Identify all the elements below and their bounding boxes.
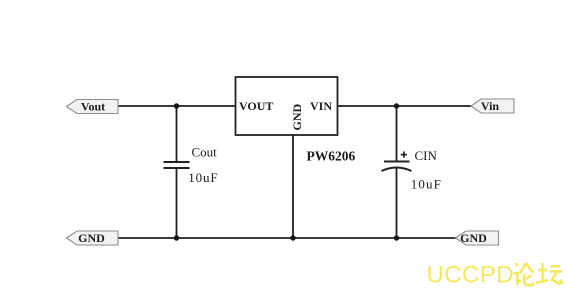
svg-text:Vout: Vout bbox=[81, 100, 105, 114]
svg-text:UCCPD: UCCPD bbox=[427, 262, 514, 289]
svg-text:Cout: Cout bbox=[192, 145, 218, 160]
svg-text:VIN: VIN bbox=[310, 99, 332, 113]
svg-text:Vin: Vin bbox=[481, 99, 500, 113]
svg-text:CIN: CIN bbox=[415, 148, 438, 163]
svg-text:GND: GND bbox=[290, 104, 304, 131]
svg-text:GND: GND bbox=[460, 231, 487, 245]
svg-text:10uF: 10uF bbox=[188, 170, 218, 185]
svg-text:10uF: 10uF bbox=[411, 177, 442, 192]
svg-text:VOUT: VOUT bbox=[239, 99, 273, 113]
svg-text:PW6206: PW6206 bbox=[307, 149, 356, 164]
svg-text:GND: GND bbox=[78, 231, 105, 245]
